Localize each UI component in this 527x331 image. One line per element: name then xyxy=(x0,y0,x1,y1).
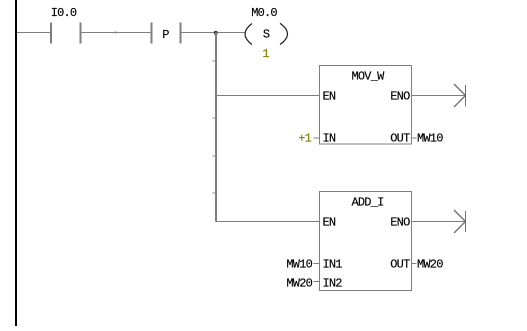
left power rail xyxy=(15,0,17,326)
svg-text:IN1: IN1 xyxy=(323,257,343,271)
coil M0.0 (S) xyxy=(245,6,288,45)
svg-text:ENO: ENO xyxy=(390,90,410,104)
svg-text:ENO: ENO xyxy=(390,216,410,230)
svg-text:+1: +1 xyxy=(298,132,311,146)
grid tick y118 xyxy=(213,117,216,119)
wire rail to contact I0.0 xyxy=(17,32,50,34)
svg-text:S: S xyxy=(263,28,270,42)
function block MOV_W xyxy=(320,66,412,146)
wire between contacts xyxy=(82,32,151,34)
svg-text:I0.0: I0.0 xyxy=(51,6,77,20)
operand MW10 into IN1 xyxy=(286,257,319,271)
contact P (positive edge) xyxy=(151,23,182,44)
svg-text:EN: EN xyxy=(323,216,336,230)
grid tick y156 xyxy=(213,155,216,157)
wire ADD_I ENO output xyxy=(412,221,466,223)
operand MW10 at OUT xyxy=(412,132,444,146)
contact I0.0 xyxy=(50,6,82,44)
wire MOV_W ENO output xyxy=(412,95,466,97)
svg-text:IN: IN xyxy=(323,132,336,146)
svg-text:MW20: MW20 xyxy=(417,257,443,271)
wire P contact to coil xyxy=(182,32,246,34)
constant +1 into IN xyxy=(298,132,319,146)
svg-text:MW10: MW10 xyxy=(417,132,443,146)
vertical branch wire xyxy=(215,33,217,222)
svg-text:MW20: MW20 xyxy=(286,276,312,290)
grid tick y193 xyxy=(213,192,216,194)
svg-text:ADD_I: ADD_I xyxy=(351,196,383,210)
svg-text:IN2: IN2 xyxy=(323,276,343,290)
svg-text:MOV_W: MOV_W xyxy=(351,70,385,84)
svg-text:OUT: OUT xyxy=(390,132,410,146)
svg-text:OUT: OUT xyxy=(390,257,410,271)
svg-text:M0.0: M0.0 xyxy=(251,6,277,20)
svg-text:EN: EN xyxy=(323,90,336,104)
junction node xyxy=(214,31,218,35)
wire branch to MOV_W EN xyxy=(216,95,320,97)
open arrow terminal ADD_I xyxy=(454,210,466,233)
function block ADD_I xyxy=(320,192,412,291)
svg-text:P: P xyxy=(162,28,169,42)
svg-text:MW10: MW10 xyxy=(286,257,312,271)
svg-text:1: 1 xyxy=(262,47,269,61)
operand MW20 into IN2 xyxy=(286,276,319,290)
grid tick y61 xyxy=(213,60,216,62)
wire branch to ADD_I EN xyxy=(216,221,320,223)
operand MW20 at OUT xyxy=(412,257,444,271)
open arrow terminal MOV_W xyxy=(454,84,466,107)
